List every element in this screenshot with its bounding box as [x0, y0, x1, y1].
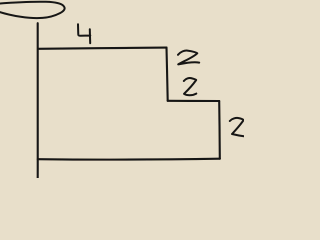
- wire: left vertical side: [37, 23, 39, 178]
- wire: upper right vertical side: [167, 48, 168, 101]
- label 2 (upper right side): [178, 51, 199, 65]
- wire: lower right vertical side: [218, 101, 221, 159]
- wire: step horizontal side: [168, 100, 220, 102]
- label 4 (top side): [78, 24, 90, 43]
- scribble loop top-left: [0, 2, 65, 18]
- wire: top horizontal side: [38, 48, 167, 49]
- label 2 (far right side): [230, 118, 244, 136]
- wire: bottom horizontal side: [38, 158, 220, 161]
- label 2 (middle right side): [184, 78, 197, 95]
